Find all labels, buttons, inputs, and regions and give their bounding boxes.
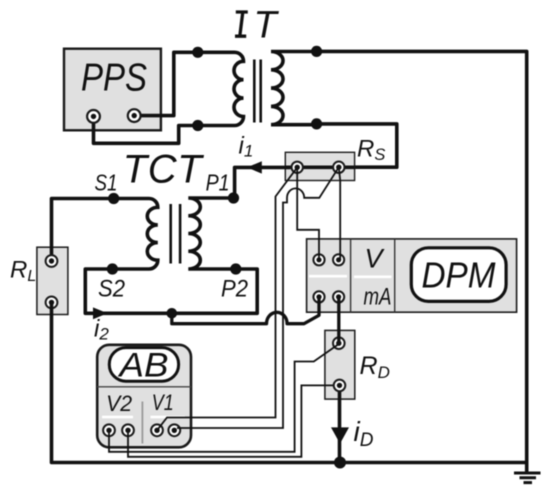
wire RL bottom terminal to bottom rail: [52, 302, 527, 462]
node junction dot on i2 wire: [167, 308, 178, 319]
wire through RS: [285, 166, 354, 170]
battery box AB: [97, 345, 191, 448]
terminal RS left: [292, 162, 303, 173]
wire IT secondary bottom to RS right terminal: [317, 124, 397, 167]
svg-text:AB: AB: [117, 347, 168, 385]
svg-text:TCT: TCT: [123, 148, 205, 192]
node bottom junction dot: [334, 457, 346, 469]
terminal RD top: [333, 337, 345, 349]
AB white separator V1: [151, 416, 186, 419]
arrow i1 head: [247, 161, 262, 173]
AB white separator V2: [102, 416, 133, 419]
thin wire RS right terminal down to DPM V right: [339, 167, 340, 260]
terminal AB V1 right: [168, 424, 180, 436]
node P1 dot: [228, 192, 239, 203]
node IT secondary top dot: [311, 46, 322, 57]
resistor RS box: [285, 152, 354, 180]
thin wire RS right terminal with hop to AB V1 right terminal: [177, 167, 339, 428]
DPM divider 1: [350, 239, 352, 312]
svg-text:V2: V2: [106, 391, 132, 416]
thin wire RS left terminal to AB V1 left terminal: [157, 167, 297, 430]
AB divider vertical light: [141, 402, 143, 444]
wire RD bottom to ground rail with arrow iD: [338, 385, 342, 462]
wire PPS right terminal to IT primary top: [134, 52, 193, 115]
transformer IT primary winding: [198, 52, 244, 125]
terminal PPS left: [87, 110, 100, 123]
wire junction to DPM mA left terminal with hop: [172, 297, 319, 324]
transformer TCT core: [171, 204, 180, 264]
thin wire RD bottom terminal to AB V2 right terminal: [128, 385, 333, 456]
terminal PPS right: [128, 109, 141, 122]
terminal DPM V left: [313, 254, 324, 265]
transformer TCT secondary winding (left): [114, 199, 158, 270]
DPM logo: [411, 248, 506, 302]
transformer IT core: [254, 60, 260, 123]
terminal AB V1 left: [151, 424, 163, 436]
node S1 dot: [108, 193, 119, 204]
node P2 dot: [230, 263, 241, 274]
arrow i2 head: [93, 307, 108, 319]
DPM white separator terminals: [309, 275, 347, 278]
DPM divider 2: [394, 239, 396, 312]
transformer IT secondary winding: [271, 52, 317, 125]
terminal AB V2 left: [103, 424, 115, 436]
terminal RL bottom: [46, 297, 58, 309]
power supply PPS box: [64, 49, 161, 131]
wire DPM mA right to RD top terminal: [337, 297, 340, 343]
wire S2 loop to P2 with arrow i2: [85, 269, 257, 313]
terminal DPM mA right: [333, 291, 344, 302]
resistor RL box: [37, 247, 68, 314]
wire IT secondary top to right edge down to ground: [317, 51, 527, 462]
DPM white separator labels: [354, 275, 392, 278]
svg-text:PPS: PPS: [81, 57, 147, 100]
svg-text:V: V: [365, 244, 386, 274]
resistor RD box: [325, 330, 355, 399]
ground symbol: [514, 463, 541, 483]
svg-text:DPM: DPM: [422, 255, 496, 296]
thin wire RS left terminal down to DPM V left: [297, 167, 319, 260]
terminal RS right: [333, 162, 344, 173]
node IT secondary bottom dot: [311, 118, 322, 129]
node IT primary top dot: [192, 47, 203, 58]
terminal RL top: [46, 255, 58, 267]
wire RS left terminal to node P1 with arrow i1: [235, 167, 290, 193]
transformer TCT primary winding (right): [188, 198, 236, 269]
label IT: [235, 4, 280, 46]
svg-text:mA: mA: [364, 284, 392, 311]
wire PPS left terminal to IT primary bottom: [94, 116, 194, 143]
svg-text:S1: S1: [95, 169, 118, 195]
svg-text:T: T: [254, 4, 280, 46]
node S2 dot: [107, 263, 118, 274]
svg-text:V1: V1: [152, 390, 174, 415]
terminal RD bottom: [334, 380, 346, 392]
svg-text:S2: S2: [98, 276, 125, 303]
AB logo: [109, 348, 178, 382]
terminal DPM mA left: [313, 291, 324, 302]
node IT primary bottom dot: [192, 120, 203, 131]
svg-text:P2: P2: [221, 276, 248, 303]
AB divider horizontal: [97, 386, 191, 388]
wire S1 to RL top terminal: [52, 199, 114, 262]
DPM box: [307, 239, 517, 312]
thin wire RD top terminal to AB V2 left terminal: [109, 344, 339, 452]
terminal DPM V right: [333, 254, 344, 265]
terminal AB V2 right: [122, 424, 134, 436]
svg-text:P1: P1: [206, 170, 230, 196]
arrow iD head: [331, 427, 349, 443]
